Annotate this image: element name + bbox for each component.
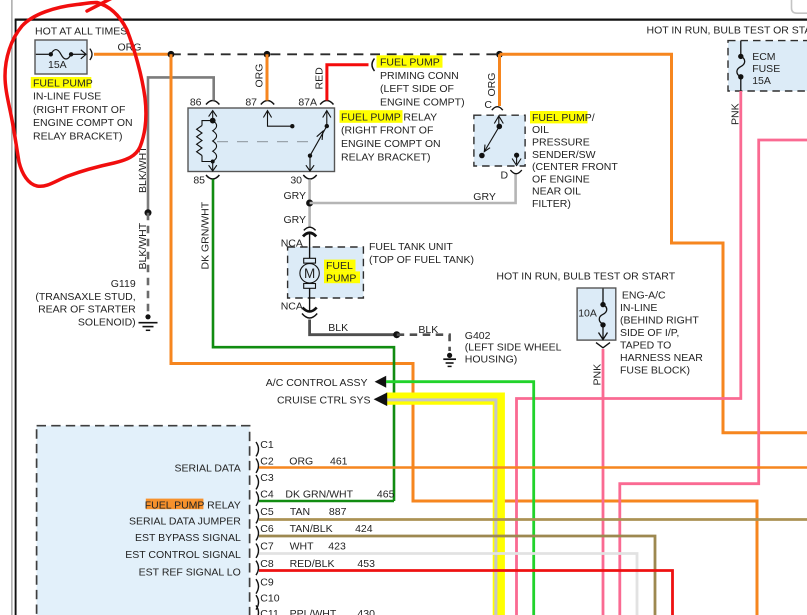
relay FUEL PUMP box — [188, 108, 335, 172]
svg-text:453: 453 — [357, 558, 375, 570]
fuse FUEL PUMP IN-LINE 15A box — [35, 40, 87, 74]
svg-text:CRUISE CTRL SYS: CRUISE CTRL SYS — [277, 394, 371, 406]
svg-text:GRY: GRY — [473, 191, 496, 203]
label D — [501, 170, 509, 182]
svg-text:WHT: WHT — [290, 541, 314, 553]
label HOT IN RUN BULB TEST OR START mid — [496, 271, 675, 283]
svg-text:HOT IN RUN, BULB TEST OR START: HOT IN RUN, BULB TEST OR START — [647, 24, 807, 36]
wire TAN/BLK 424 from C6 — [259, 536, 655, 615]
label PPL/WHT 430 — [290, 608, 375, 615]
node junction 3 — [496, 51, 503, 58]
svg-text:GRY: GRY — [284, 190, 307, 202]
label CRUISE CTRL SYS — [277, 394, 371, 406]
svg-text:FUEL PUMP RELAY: FUEL PUMP RELAY — [341, 111, 437, 123]
ground G119 — [139, 314, 158, 330]
label PNK vertical ENG-A/C — [592, 364, 604, 386]
wire ORG fuse to junction — [94, 53, 171, 56]
svg-text:DK GRN/WHT: DK GRN/WHT — [285, 489, 353, 501]
svg-text:ORG: ORG — [486, 73, 498, 97]
label EST REF SIGNAL LO — [139, 567, 241, 579]
pin C1 — [256, 439, 274, 456]
svg-text:A/C CONTROL ASSY: A/C CONTROL ASSY — [266, 377, 368, 389]
svg-text:M: M — [304, 266, 315, 281]
label ECM FUSE 15A — [752, 51, 780, 87]
pin C2 — [256, 456, 274, 473]
label FUEL PUMP RELAY block — [340, 110, 441, 163]
wire DK GRN/WHT 465 from C4 — [259, 500, 394, 503]
label DK GRN/WHT vertical — [200, 201, 212, 269]
label 10A — [578, 307, 597, 319]
svg-text:NEAR OIL: NEAR OIL — [532, 186, 581, 198]
red pen loop — [5, 0, 146, 186]
svg-text:HOT AT ALL TIMES: HOT AT ALL TIMES — [35, 26, 127, 38]
svg-text:EST CONTROL SIGNAL: EST CONTROL SIGNAL — [125, 549, 241, 561]
svg-text:15A: 15A — [48, 59, 67, 71]
ENG-A/C fuse symbol — [599, 289, 608, 340]
svg-text:C8: C8 — [260, 558, 274, 570]
svg-text:G402: G402 — [465, 330, 491, 342]
wire LT GRN to A/C control assy — [386, 382, 534, 615]
svg-text:BLK/WHT: BLK/WHT — [137, 146, 149, 193]
svg-text:RED: RED — [314, 67, 326, 90]
svg-text:FUSE BLOCK): FUSE BLOCK) — [620, 365, 690, 377]
svg-text:FUEL PUMP RELAY: FUEL PUMP RELAY — [145, 499, 241, 511]
svg-text:D: D — [501, 170, 509, 182]
label FUEL PUMP PRIMING CONN — [377, 55, 465, 108]
label PNK vertical ECM — [730, 103, 742, 125]
svg-text:TAPED TO: TAPED TO — [620, 340, 671, 352]
svg-text:REAR OF STARTER: REAR OF STARTER — [38, 304, 136, 316]
svg-text:FUEL PUMP/: FUEL PUMP/ — [532, 112, 595, 124]
svg-text:FUEL PUMP: FUEL PUMP — [380, 57, 440, 69]
value 15A — [48, 59, 67, 71]
label ENG-A/C IN-LINE block — [620, 290, 703, 377]
svg-text:BLK: BLK — [418, 324, 438, 336]
svg-text:SERIAL DATA: SERIAL DATA — [174, 462, 240, 474]
svg-text:BLK: BLK — [328, 322, 348, 334]
label SERIAL DATA — [174, 462, 240, 474]
svg-text:SENDER/SW: SENDER/SW — [532, 149, 596, 161]
svg-text:PNK: PNK — [592, 364, 604, 386]
label ORG vertical — [254, 64, 266, 88]
svg-text:C6: C6 — [260, 523, 274, 535]
svg-text:ORG: ORG — [289, 456, 313, 468]
svg-text:30: 30 — [290, 174, 302, 186]
svg-text:87: 87 — [245, 97, 257, 109]
label NCA top — [281, 238, 303, 250]
motor FUEL PUMP M — [300, 233, 319, 312]
svg-text:465: 465 — [377, 489, 395, 501]
svg-text:(LEFT SIDE OF: (LEFT SIDE OF — [380, 83, 454, 95]
wire ORG long path from junction1 — [171, 54, 757, 615]
svg-text:423: 423 — [328, 541, 346, 553]
label FUEL PUMP yellow at tank — [324, 260, 360, 285]
relay coil and resistor — [197, 111, 217, 171]
connector bracket priming conn — [372, 59, 375, 72]
svg-text:(CENTER FRONT: (CENTER FRONT — [532, 161, 618, 173]
wire BLK from pump — [310, 320, 397, 335]
svg-text:PRIMING CONN: PRIMING CONN — [380, 70, 459, 82]
svg-text:ENG-A/C: ENG-A/C — [622, 290, 666, 302]
wire yellow highlighted cruise band — [386, 399, 499, 615]
wire ORG junction2 to pin 87 — [266, 54, 269, 100]
svg-text:IN-LINE FUSE: IN-LINE FUSE — [33, 91, 101, 103]
svg-text:(TOP OF FUEL TANK): (TOP OF FUEL TANK) — [369, 254, 474, 266]
label ORG — [118, 41, 142, 53]
svg-text:ORG: ORG — [254, 64, 266, 88]
label GRY upper — [284, 190, 307, 202]
svg-text:PRESSURE: PRESSURE — [532, 137, 590, 149]
svg-text:C7: C7 — [260, 541, 274, 553]
label FUEL PUMP (yellow) — [31, 77, 93, 90]
label TAN/BLK 424 — [290, 523, 373, 535]
svg-text:TAN: TAN — [290, 506, 310, 518]
svg-text:IN-LINE: IN-LINE — [620, 302, 657, 314]
svg-text:C10: C10 — [260, 593, 279, 605]
label EST BYPASS SIGNAL — [135, 532, 241, 544]
label ORG vertical at sender — [486, 73, 498, 97]
label EST CONTROL SIGNAL — [125, 549, 241, 561]
pin C5 — [256, 506, 274, 523]
svg-text:C9: C9 — [260, 577, 274, 589]
wire BLKWHT riser and relay 86 feed — [148, 77, 214, 212]
svg-text:887: 887 — [329, 506, 347, 518]
pin C10 — [256, 593, 280, 610]
label BLK — [328, 322, 348, 334]
label SERIAL DATA JUMPER — [129, 515, 241, 527]
svg-text:SERIAL DATA JUMPER: SERIAL DATA JUMPER — [129, 515, 241, 527]
pin 87A — [298, 97, 333, 109]
wire WHT 423 from C7 — [259, 554, 637, 615]
connector chevron below fuse — [596, 343, 610, 348]
svg-text:EST BYPASS SIGNAL: EST BYPASS SIGNAL — [135, 532, 241, 544]
frame border left — [15, 20, 17, 615]
relay contact 87 — [263, 111, 294, 129]
arrow A/C — [375, 376, 387, 388]
svg-text:HOUSING): HOUSING) — [465, 353, 518, 365]
svg-text:TAN/BLK: TAN/BLK — [290, 523, 333, 535]
label BLK/WHT vertical upper — [137, 146, 149, 193]
ENG-A/C fuse box — [577, 288, 616, 340]
wire GRY to sender D — [310, 174, 516, 203]
svg-text:HARNESS NEAR: HARNESS NEAR — [620, 352, 703, 364]
label HOT IN RUN BULB TEST OR START top — [647, 24, 807, 36]
pin C4 — [256, 489, 274, 506]
wire ORG 461 from C2 — [259, 466, 807, 469]
svg-text:ECM: ECM — [752, 51, 775, 63]
svg-text:(BEHIND RIGHT: (BEHIND RIGHT — [620, 315, 699, 327]
wire BLK dashed to G402 — [397, 335, 450, 351]
wire DK GRN/WHT from pin 85 — [213, 179, 394, 501]
svg-text:C: C — [484, 99, 492, 111]
arrow CRUISE — [374, 393, 388, 407]
svg-text:(RIGHT FRONT OF: (RIGHT FRONT OF — [341, 125, 433, 137]
wire GRY pin30 down — [308, 179, 311, 227]
wire dashed bus — [171, 53, 500, 55]
label WHT 423 — [290, 541, 346, 553]
ECM fuse box — [728, 41, 807, 91]
svg-text:C3: C3 — [260, 472, 274, 484]
svg-text:ORG: ORG — [118, 41, 142, 53]
frame border top — [15, 18, 807, 20]
ECM fuse symbol — [737, 41, 745, 91]
svg-text:RELAY BRACKET): RELAY BRACKET) — [33, 131, 122, 143]
wire ORG junction3 to sender C — [498, 54, 501, 106]
label BLK/WHT vertical lower — [137, 222, 149, 269]
svg-text:OIL: OIL — [532, 124, 549, 136]
svg-text:FILTER): FILTER) — [532, 198, 571, 210]
label RED/BLK 453 — [290, 558, 375, 570]
pin C3 — [256, 472, 274, 489]
pin C6 — [256, 523, 274, 540]
svg-text:(TRANSAXLE STUD,: (TRANSAXLE STUD, — [35, 291, 135, 303]
connector bracket at fuse output — [90, 49, 92, 60]
svg-text:(LEFT SIDE WHEEL: (LEFT SIDE WHEEL — [465, 342, 562, 354]
svg-text:424: 424 — [355, 523, 373, 535]
svg-text:C2: C2 — [260, 456, 274, 468]
svg-text:SOLENOID): SOLENOID) — [78, 316, 136, 328]
wire TAN 887 from C5 — [259, 518, 807, 521]
fuel tank unit box — [288, 247, 364, 298]
label GRY lower — [284, 214, 307, 226]
svg-text:87A: 87A — [298, 97, 317, 109]
svg-text:DK GRN/WHT: DK GRN/WHT — [200, 201, 212, 269]
label FUEL PUMP OIL PRESSURE block — [530, 111, 618, 210]
sender box FUEL PUMP/OIL PRESSURE — [474, 115, 525, 166]
pin C11 — [256, 605, 279, 615]
wire RED/BLK 453 from C8 — [259, 571, 673, 615]
wire GRY core of cruise band — [386, 400, 496, 615]
svg-text:86: 86 — [190, 97, 202, 109]
svg-text:G119: G119 — [111, 278, 136, 290]
ground G402 — [443, 353, 456, 367]
pin C8 — [256, 558, 274, 575]
pin 30 — [290, 174, 316, 186]
pin D arc — [510, 170, 521, 174]
ui tab top-right — [792, 0, 807, 13]
wire PNK from ECM fuse — [517, 91, 741, 615]
node BLK junction — [393, 331, 400, 338]
label C — [484, 99, 492, 111]
node GRY junction — [306, 200, 313, 207]
pin C arc — [492, 107, 503, 111]
svg-text:SIDE OF I/P,: SIDE OF I/P, — [620, 327, 679, 339]
label G119 block — [35, 278, 136, 328]
svg-text:EST REF SIGNAL LO: EST REF SIGNAL LO — [139, 567, 241, 579]
svg-text:RELAY BRACKET): RELAY BRACKET) — [341, 151, 430, 163]
svg-text:C11: C11 — [260, 608, 279, 615]
label NCA bottom — [281, 301, 303, 313]
svg-text:ENGINE COMPT): ENGINE COMPT) — [380, 97, 465, 109]
label G402 block — [465, 330, 562, 365]
node junction 1 — [168, 51, 175, 58]
svg-text:10A: 10A — [578, 307, 597, 319]
page left rule — [11, 0, 13, 615]
svg-text:FUEL TANK UNIT: FUEL TANK UNIT — [369, 241, 453, 253]
node BLKWHT junction — [145, 209, 152, 216]
connector NCA bottom — [302, 308, 317, 319]
label RED vertical — [314, 67, 326, 90]
wire RED 87A to priming conn — [327, 65, 369, 101]
svg-text:(RIGHT FRONT OF: (RIGHT FRONT OF — [33, 104, 125, 116]
label IN-LINE FUSE block — [33, 91, 133, 143]
wire ORG junction3 right and down to edge — [500, 54, 807, 432]
pin 85 — [193, 174, 219, 186]
wire PNK from right edge — [620, 140, 807, 615]
svg-text:RED/BLK: RED/BLK — [290, 558, 335, 570]
label FUEL TANK UNIT — [369, 241, 474, 266]
svg-text:C1: C1 — [260, 439, 274, 451]
svg-text:461: 461 — [330, 456, 348, 468]
pin C7 — [256, 541, 274, 558]
wire BLK/WHT dashed to G119 — [147, 213, 150, 314]
svg-text:FUEL: FUEL — [326, 260, 353, 272]
label HOT AT ALL TIMES — [35, 26, 127, 38]
svg-text:HOT IN RUN, BULB TEST OR START: HOT IN RUN, BULB TEST OR START — [496, 271, 675, 283]
label DK GRN/WHT 465 — [285, 489, 394, 501]
relay internal dashed line — [217, 141, 313, 143]
svg-text:430: 430 — [357, 608, 375, 615]
svg-text:PPL/WHT: PPL/WHT — [290, 608, 337, 615]
label TAN 887 — [290, 506, 347, 518]
wire PNK from ENG-A/C fuse — [602, 349, 605, 615]
label FUEL PUMP RELAY (orange highlight) — [145, 499, 241, 512]
svg-text:FUSE: FUSE — [752, 63, 780, 75]
svg-text:C5: C5 — [260, 506, 274, 518]
label GRY at sender — [473, 191, 496, 203]
svg-text:BLK/WHT: BLK/WHT — [137, 222, 149, 269]
connector NCA top — [303, 227, 316, 236]
label ORG 461 — [289, 456, 347, 468]
ECM connector box — [37, 426, 250, 615]
svg-text:GRY: GRY — [284, 214, 307, 226]
relay contact 87A-30 — [306, 111, 331, 171]
pin 86 — [190, 97, 220, 109]
svg-text:ENGINE COMPT ON: ENGINE COMPT ON — [33, 117, 133, 129]
label A/C CONTROL ASSY — [266, 377, 368, 389]
svg-text:NCA: NCA — [281, 301, 303, 313]
svg-text:OF ENGINE: OF ENGINE — [532, 173, 590, 185]
fuse symbol 15A — [36, 50, 86, 59]
svg-text:PNK: PNK — [730, 103, 742, 125]
svg-text:PUMP: PUMP — [326, 272, 356, 284]
pin C9 — [256, 577, 274, 594]
label BLK at G402 — [418, 324, 438, 336]
pin 87 — [245, 97, 274, 109]
svg-text:85: 85 — [193, 174, 205, 186]
svg-text:FUEL PUMP: FUEL PUMP — [33, 78, 93, 90]
node junction 2 — [264, 51, 271, 58]
sender switch symbol — [479, 116, 521, 166]
svg-text:ENGINE COMPT ON: ENGINE COMPT ON — [341, 138, 441, 150]
svg-text:C4: C4 — [260, 489, 274, 501]
svg-text:15A: 15A — [752, 75, 771, 87]
